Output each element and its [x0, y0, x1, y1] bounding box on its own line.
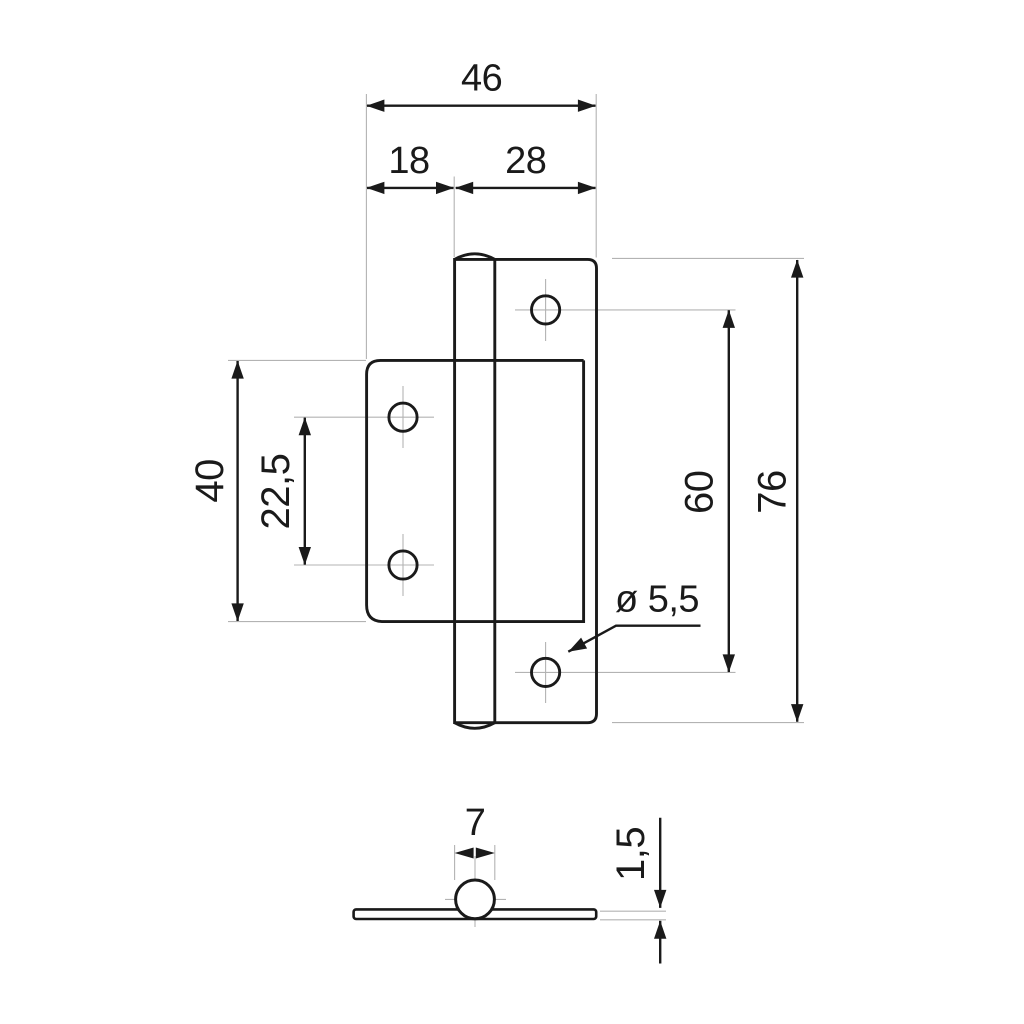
pin barrel bottom dome	[455, 723, 495, 729]
hinge left leaf and knuckle recess rectangle	[367, 360, 584, 621]
pin barrel right edge	[493, 258, 496, 724]
dimension line 46	[367, 104, 596, 106]
extension line 1,5 top	[600, 910, 666, 912]
arrowhead 28 left	[455, 182, 473, 194]
centerline hole R-bottom vertical	[545, 642, 547, 703]
dimension line 76	[796, 260, 798, 722]
arrowhead 46 right	[578, 100, 596, 112]
arrowhead 18 right	[436, 182, 454, 194]
hinge right leaf outline	[455, 259, 597, 722]
arrowhead 7 left	[455, 848, 474, 859]
dimension line 40	[236, 361, 238, 621]
hole right bottom	[532, 658, 560, 686]
arrowhead 1,5 upper	[654, 890, 666, 908]
svg-text:40: 40	[188, 459, 232, 503]
svg-text:1,5: 1,5	[609, 827, 653, 881]
extension line 40 bottom	[228, 621, 366, 623]
bottom view plate	[354, 909, 597, 919]
arrowhead 60 top	[723, 310, 735, 328]
bottom view pin circle	[456, 880, 495, 919]
centerline hole R-top horizontal / 60 extension	[515, 309, 736, 311]
extension line 40 top	[228, 359, 366, 361]
centerline hole L1 horizontal	[294, 416, 434, 418]
svg-text:18: 18	[388, 140, 429, 182]
arrowhead 76 bottom	[791, 704, 803, 722]
svg-text:ø 5,5: ø 5,5	[615, 578, 699, 620]
svg-text:22,5: 22,5	[254, 454, 298, 530]
arrowhead 7 right	[476, 848, 495, 859]
extension line middle (18/28)	[453, 177, 455, 258]
pin barrel top dome	[455, 254, 495, 260]
dimension line 18	[367, 187, 454, 189]
arrowhead 22,5 top	[299, 417, 311, 435]
centerline pin horizontal (bottom view)	[445, 898, 506, 900]
extension line 76 top	[612, 257, 804, 259]
pin barrel left edge	[453, 258, 456, 724]
hole left bottom	[389, 551, 417, 579]
extension line 7 right	[494, 845, 496, 880]
centerline hole R-top vertical	[545, 279, 547, 341]
dimension line 22,5	[304, 418, 306, 565]
arrowhead 22,5 bottom	[299, 547, 311, 565]
centerline hole L2 vertical	[402, 534, 404, 596]
arrowhead 40 top	[231, 361, 243, 379]
hole right top	[532, 296, 560, 324]
svg-text:7: 7	[465, 802, 486, 844]
arrowhead 28 right	[578, 182, 596, 194]
svg-text:60: 60	[677, 470, 721, 514]
extension line 7 left	[454, 845, 456, 880]
svg-text:46: 46	[461, 58, 502, 100]
dimension line 1,5 upper	[659, 818, 661, 908]
centerline hole L2 horizontal	[294, 564, 434, 566]
extension line left (46/18)	[365, 94, 367, 359]
arrowhead 76 top	[791, 260, 803, 278]
centerline hole R-bottom horizontal / 60 extension	[515, 671, 736, 673]
centerline hole L1 vertical	[402, 386, 404, 448]
arrowhead leader dia 5,5	[568, 638, 587, 652]
leader line dia 5,5	[568, 626, 700, 652]
dimension line 60	[728, 310, 730, 672]
svg-text:76: 76	[750, 470, 794, 514]
arrowhead 40 bottom	[231, 603, 243, 621]
extension line right (46/28)	[595, 94, 597, 258]
extension line 76 bottom	[612, 722, 804, 724]
hole left top	[389, 403, 417, 431]
arrowhead 18 left	[366, 182, 384, 194]
extension line 1,5 bottom	[600, 919, 666, 921]
dimension line 1,5 lower	[659, 921, 661, 964]
svg-text:28: 28	[505, 140, 546, 182]
centerline pin vertical (bottom view)	[474, 856, 476, 927]
arrowhead 46 left	[366, 100, 384, 112]
arrowhead 1,5 lower	[654, 921, 666, 939]
arrowhead 60 bottom	[723, 654, 735, 672]
dimension line 28	[456, 187, 596, 189]
